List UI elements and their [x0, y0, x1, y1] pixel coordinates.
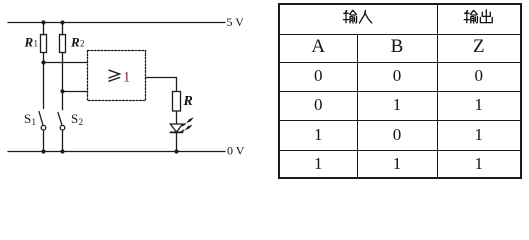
- svg-text:S: S: [24, 111, 31, 126]
- svg-text:5 V: 5 V: [227, 15, 245, 29]
- value label S1: [24, 111, 36, 127]
- resistor R2: [60, 23, 66, 110]
- value label 5 V: [227, 15, 245, 29]
- svg-text:2: 2: [79, 117, 84, 127]
- op-amp U1 OR-gate dashed box: [88, 51, 146, 101]
- node S2 to 0V: [60, 149, 64, 153]
- wire gate input 2: [63, 91, 88, 93]
- value label 0 V: [227, 143, 245, 157]
- svg-text:0 V: 0 V: [227, 143, 245, 157]
- svg-text:2: 2: [80, 39, 85, 49]
- table header glyph chu (of shuchu): [480, 10, 492, 23]
- table header glyph ru (of shuru): [359, 10, 371, 23]
- node top junction R1: [41, 20, 45, 24]
- svg-text:R: R: [24, 35, 34, 50]
- svg-text:1: 1: [34, 39, 39, 49]
- wire gate input 1: [44, 62, 88, 64]
- value label R2: [70, 35, 85, 50]
- node B (R2 to gate input tap): [60, 89, 64, 93]
- wire gate output: [146, 78, 177, 92]
- resistor R: [173, 92, 181, 125]
- switch S1: [39, 112, 46, 152]
- LED light arrows: [181, 117, 194, 132]
- truth table: [278, 3, 522, 179]
- LED D1: [170, 124, 182, 152]
- node S1 to 0V: [41, 149, 45, 153]
- resistor R1: [41, 23, 47, 109]
- svg-text:R: R: [183, 94, 193, 109]
- svg-text:S: S: [71, 111, 78, 126]
- value label S2: [71, 111, 83, 127]
- value label R: [183, 94, 193, 109]
- value label R1: [24, 35, 39, 50]
- svg-text:1: 1: [32, 117, 37, 127]
- wire 5V rail: [8, 22, 225, 24]
- table header glyph shu (of shuchu): [464, 10, 477, 23]
- svg-text:1: 1: [123, 69, 130, 85]
- node LED to 0V: [174, 149, 178, 153]
- wire 0V rail: [8, 151, 225, 153]
- node A (R1 to gate input tap): [41, 60, 45, 64]
- node top junction R2: [60, 20, 64, 24]
- svg-text:R: R: [70, 35, 80, 50]
- switch S2: [58, 113, 65, 152]
- table header glyph shu (of shuru): [343, 10, 356, 23]
- value label >=1 of gate: [109, 69, 130, 85]
